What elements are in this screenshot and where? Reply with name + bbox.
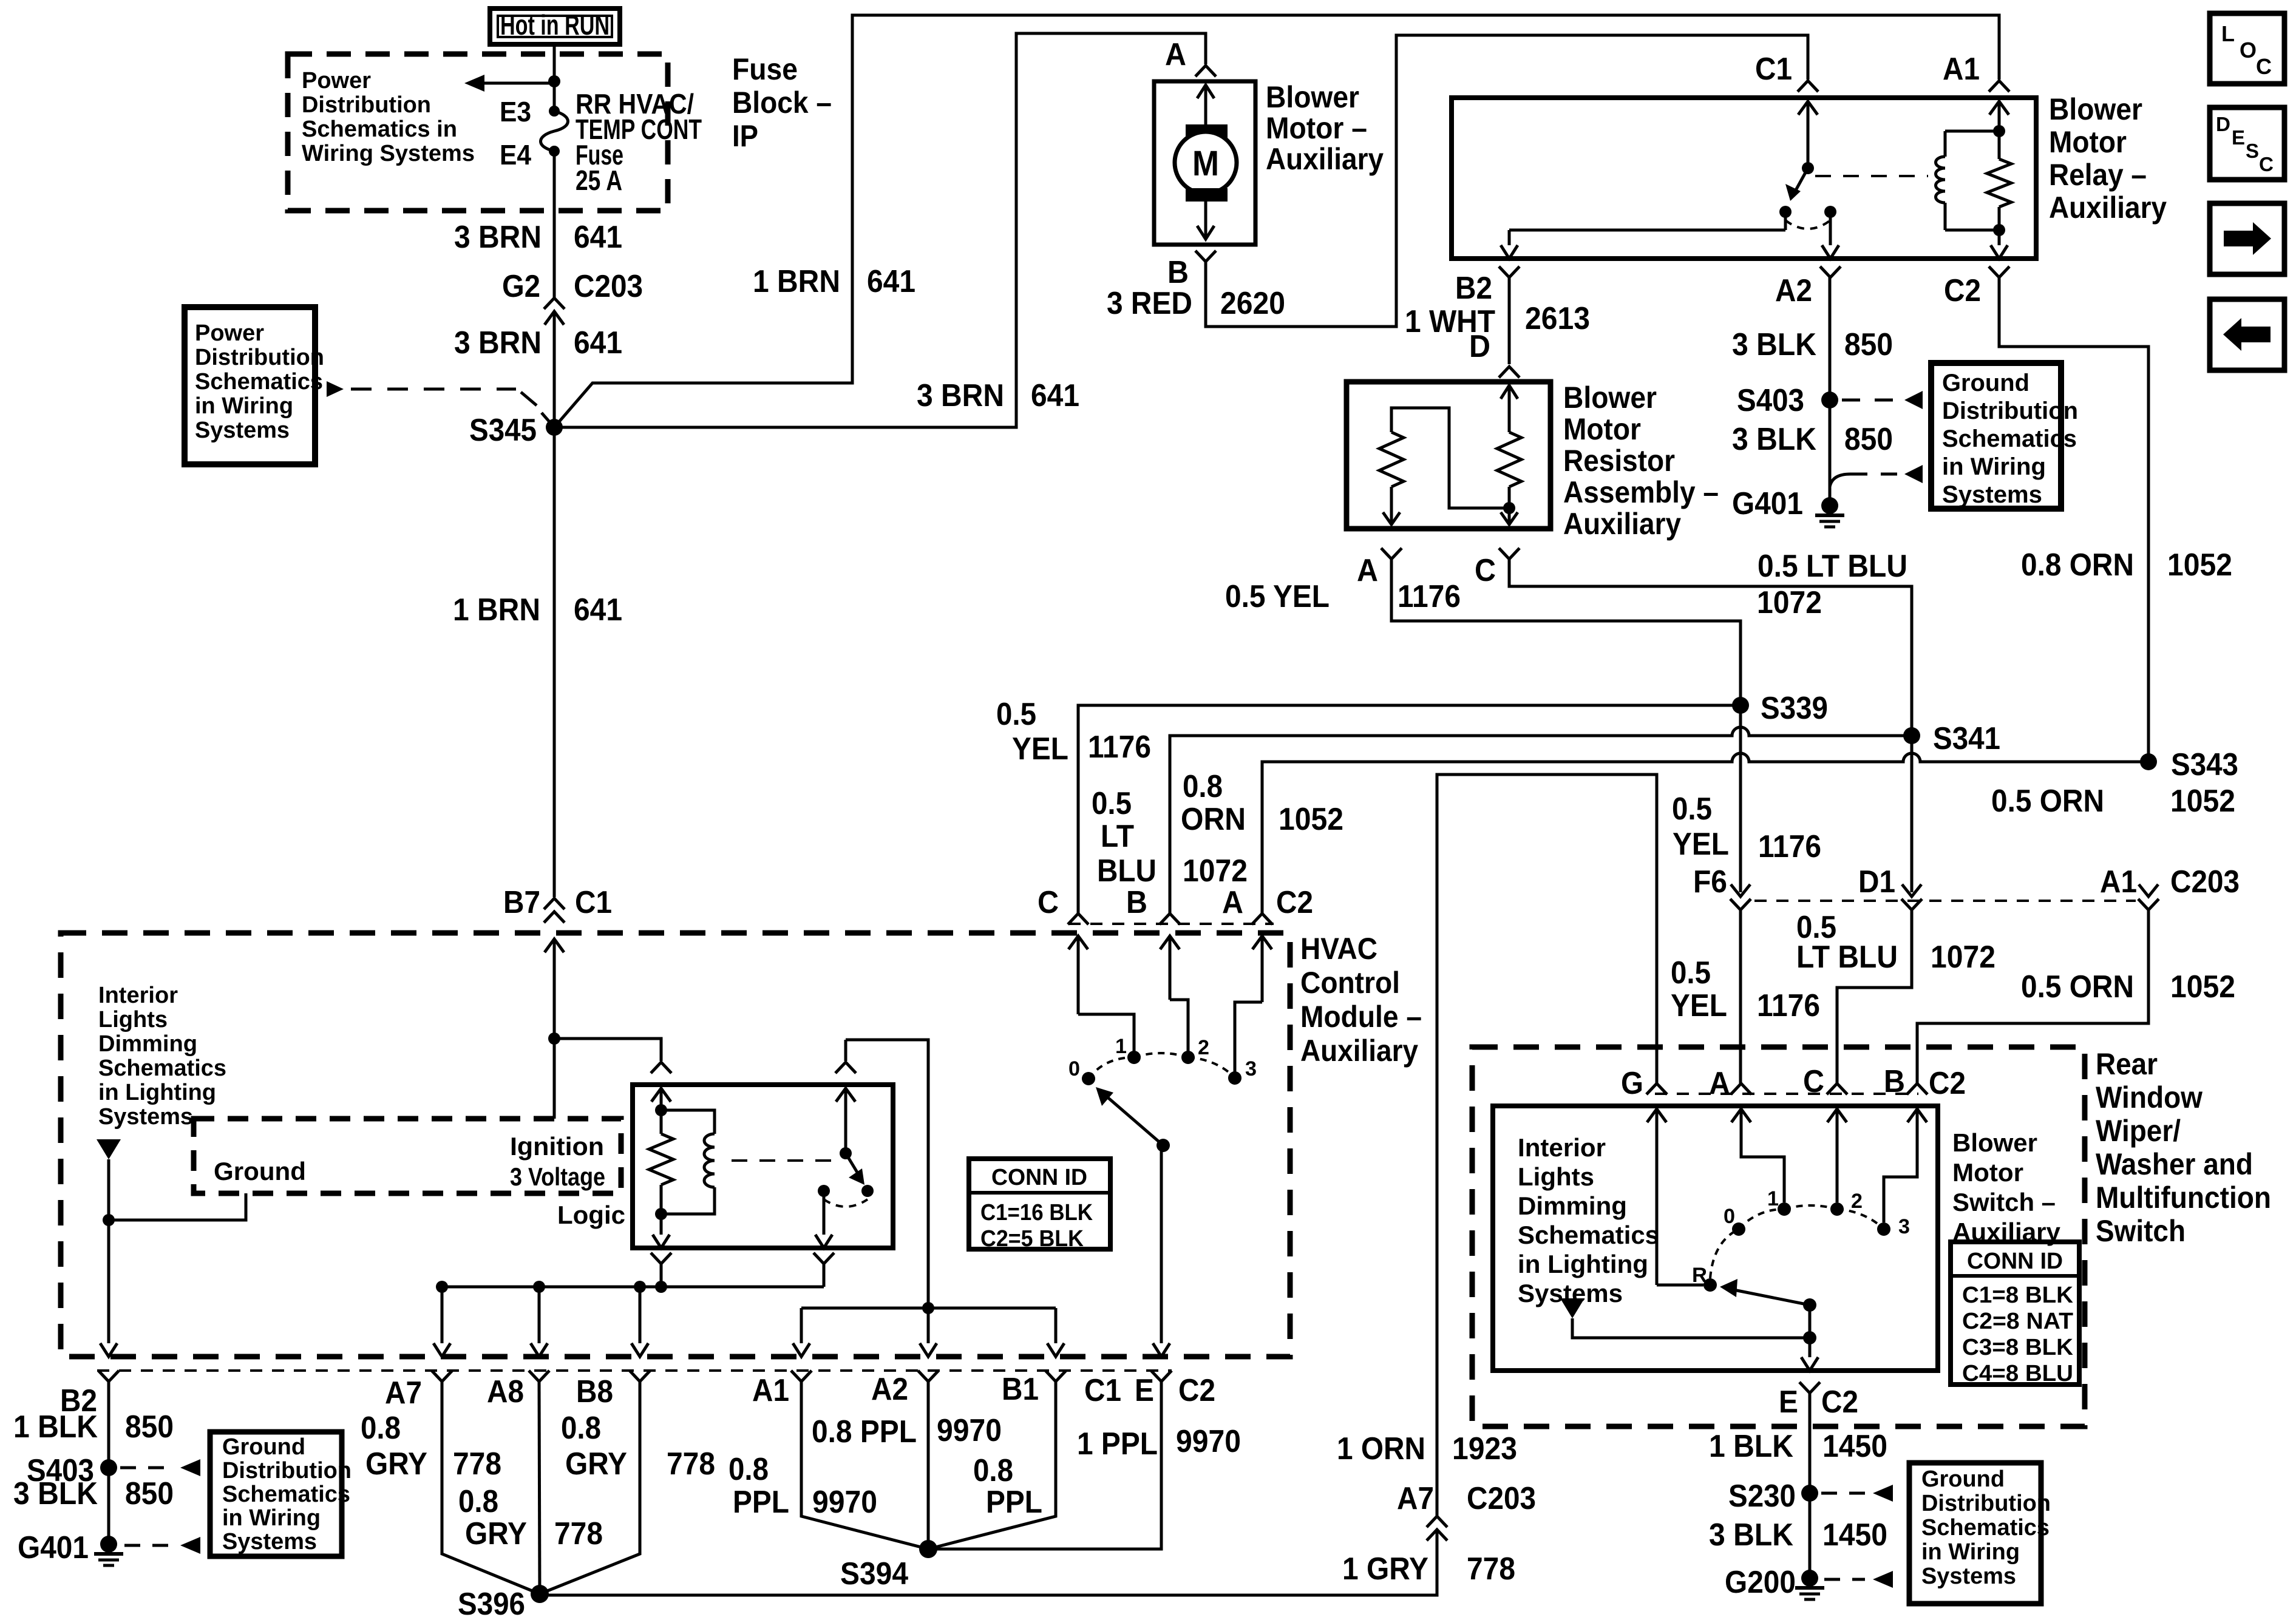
svg-text:C2=5 BLK: C2=5 BLK <box>980 1226 1084 1252</box>
wire label 3 BLK 850 (lower) <box>1732 422 1893 457</box>
wire: 0.5 LT BLU 1072 from HVAC B to S341 (hops S339 wire) <box>1170 727 1912 914</box>
svg-text:Distribution: Distribution <box>195 345 324 370</box>
svg-text:O: O <box>2240 38 2257 63</box>
pin A of rear switch <box>1709 1066 1751 1101</box>
svg-text:1923: 1923 <box>1452 1431 1517 1466</box>
svg-text:0.5: 0.5 <box>1672 792 1712 827</box>
relay coil and resistor <box>1936 101 2012 259</box>
wire label 1 BRN 641 <box>453 592 622 628</box>
svg-text:C: C <box>2259 153 2274 175</box>
connector C2 label and thin dashed line <box>1068 885 1313 924</box>
svg-text:9970: 9970 <box>812 1485 877 1520</box>
svg-text:HVAC: HVAC <box>1300 932 1377 966</box>
svg-text:3 BLK: 3 BLK <box>1732 422 1816 457</box>
svg-text:Auxiliary: Auxiliary <box>1300 1034 1418 1068</box>
label Ground <box>214 1157 306 1185</box>
svg-text:1 PPL: 1 PPL <box>1077 1426 1158 1462</box>
relay contact (to A2) <box>1824 206 1836 218</box>
wire: ground box to ground rail <box>109 1193 246 1220</box>
svg-text:3: 3 <box>1245 1057 1257 1080</box>
svg-text:Washer and: Washer and <box>2096 1147 2253 1181</box>
HVAC bottom connector thin dashed line <box>97 1369 1172 1372</box>
svg-text:Multifunction: Multifunction <box>2096 1181 2271 1215</box>
in-line connector C203 thin dashed line <box>1754 900 2136 902</box>
svg-text:850: 850 <box>1844 327 1893 362</box>
nav icon arrow left <box>2210 299 2284 370</box>
blower motor M1 box <box>1154 81 1255 245</box>
resistor assembly internals <box>1379 385 1521 524</box>
component label: Blower Motor Resistor Assembly - Auxiliary <box>1563 381 1719 541</box>
label box: Hot in RUN <box>490 8 620 44</box>
pin B of rear switch <box>1884 1064 1927 1099</box>
pin D of resistor assembly <box>1499 367 1520 378</box>
wire: 0.5 YEL 1176 from resistor A to S339 <box>1391 559 1741 697</box>
svg-text:3 Voltage: 3 Voltage <box>510 1162 605 1191</box>
motor M symbol <box>1175 85 1237 239</box>
svg-text:1 BLK: 1 BLK <box>13 1409 98 1445</box>
svg-text:0.8: 0.8 <box>561 1411 601 1446</box>
svg-text:1072: 1072 <box>1757 585 1822 620</box>
svg-text:1: 1 <box>1115 1035 1127 1058</box>
wire label 3 BRN 641 (below C203) <box>454 325 622 361</box>
wire labels 0.8 PPL 9970 (A2) <box>812 1413 1002 1449</box>
svg-text:Motor –: Motor – <box>1266 111 1367 145</box>
reference box: Power Distribution Schematics in Wiring Systems <box>185 307 324 464</box>
rear switch connector thin dashed line <box>1655 1093 1918 1095</box>
HVAC rotary blower switch <box>1078 1000 1262 1085</box>
pin A of blower motor <box>1165 37 1216 76</box>
svg-text:641: 641 <box>867 264 915 299</box>
wire label 0.5 YEL 1176 (below C203) <box>1671 955 1820 1023</box>
wire: 0.8 ORN 1052 from HVAC A to S343 (hops S339,S341 wires) <box>1262 753 2148 914</box>
svg-text:Systems: Systems <box>98 1104 193 1130</box>
dashed reference from G401 left <box>124 1537 200 1554</box>
svg-text:Wiper/: Wiper/ <box>2096 1114 2181 1148</box>
svg-text:Auxiliary: Auxiliary <box>2049 191 2167 225</box>
svg-text:0.5: 0.5 <box>1092 786 1132 821</box>
wire: rotary common to pin E/C2 <box>1153 1145 1170 1357</box>
rear rotary contacts <box>1703 1202 1890 1292</box>
svg-text:S403: S403 <box>1737 383 1804 418</box>
wire: 1 BRN 641 rail from S345 up to blower motor relay A1 <box>554 15 1999 427</box>
svg-text:3: 3 <box>1898 1215 1910 1238</box>
svg-text:Logic: Logic <box>557 1201 625 1229</box>
wire label 1 BRN 641 <box>753 264 915 299</box>
rotary position labels 0 1 2 3 (HVAC) <box>1068 1035 1257 1080</box>
svg-text:778: 778 <box>554 1516 603 1551</box>
svg-text:E3: E3 <box>500 96 531 127</box>
svg-text:641: 641 <box>574 592 622 628</box>
wire labels 0.8 GRY 778 (A7) <box>361 1411 501 1482</box>
wire: B+ to HVAC internal relay <box>554 1039 661 1061</box>
connector C203 pin G2 <box>502 269 643 304</box>
svg-text:1176: 1176 <box>1757 988 1820 1023</box>
wire labels 0.8 PPL (B1) <box>973 1453 1042 1520</box>
svg-text:in Wiring: in Wiring <box>222 1505 321 1531</box>
svg-text:C1=16 BLK: C1=16 BLK <box>980 1200 1093 1225</box>
relay K1 box: Blower Motor Relay - Auxiliary <box>1452 98 2036 259</box>
wire: 1 BLK 850 from HVAC B2 to S403 <box>107 1381 110 1544</box>
svg-text:IP: IP <box>732 119 758 153</box>
relay contact (to B2) <box>1779 206 1792 230</box>
svg-text:S339: S339 <box>1761 691 1828 726</box>
svg-text:C: C <box>1475 553 1496 588</box>
dashed actuator link (HVAC relay) <box>732 1159 838 1162</box>
wire label 3 BLK 1450 <box>1709 1517 1887 1553</box>
svg-text:0.8: 0.8 <box>973 1453 1013 1488</box>
svg-text:in Lighting: in Lighting <box>1518 1250 1648 1278</box>
svg-text:B7: B7 <box>503 885 540 920</box>
svg-text:Block –: Block – <box>732 86 832 120</box>
label Ignition 3 Voltage <box>510 1132 605 1191</box>
pin A7 of HVAC <box>385 1371 452 1411</box>
svg-text:PPL: PPL <box>733 1485 789 1520</box>
svg-text:1450: 1450 <box>1822 1429 1887 1464</box>
CONN ID table (HVAC) <box>969 1159 1110 1252</box>
wire labels 0.8 GRY 778 (A8) <box>458 1484 603 1551</box>
svg-text:CONN ID: CONN ID <box>991 1165 1087 1190</box>
svg-text:C1=8 BLK: C1=8 BLK <box>1962 1283 2074 1308</box>
svg-text:Systems: Systems <box>1942 481 2042 508</box>
svg-text:641: 641 <box>574 325 622 361</box>
wire label 3 BRN 641 <box>454 220 622 255</box>
svg-text:Fuse: Fuse <box>732 52 798 86</box>
svg-text:Ground: Ground <box>1921 1466 2005 1492</box>
pin E/C2 of rear switch <box>1779 1382 1858 1420</box>
svg-text:Motor: Motor <box>2049 125 2127 159</box>
ground G200 <box>1725 1565 1824 1600</box>
pin C2 of relay <box>1944 266 2009 308</box>
rotary wiper arm (rear) <box>1720 1279 1816 1312</box>
svg-text:2: 2 <box>1851 1190 1863 1213</box>
svg-text:Systems: Systems <box>1921 1564 2016 1589</box>
wire: output bracket to A1/A2/B1 <box>793 1302 1064 1357</box>
svg-text:9970: 9970 <box>1176 1424 1241 1459</box>
svg-text:850: 850 <box>1844 422 1893 457</box>
svg-text:C203: C203 <box>2170 864 2240 900</box>
wire: 0.8 GRY 778 from B8 <box>540 1381 640 1594</box>
svg-text:0.8 PPL: 0.8 PPL <box>812 1414 917 1449</box>
svg-text:Dimming: Dimming <box>98 1031 197 1057</box>
svg-text:3 BRN: 3 BRN <box>454 220 542 255</box>
svg-text:E: E <box>1779 1385 1798 1420</box>
svg-text:Ground: Ground <box>1942 370 2029 396</box>
svg-text:C203: C203 <box>574 269 643 304</box>
component label: Rear Window Wiper/Washer and Multifunction Switch <box>2096 1047 2271 1248</box>
svg-text:Interior: Interior <box>1518 1133 1606 1162</box>
wire label 0.5 ORN 1052 (below C203) <box>2021 969 2235 1005</box>
rear window multifunction switch dashed box <box>1472 1047 2085 1426</box>
svg-text:Auxiliary: Auxiliary <box>1266 142 1384 176</box>
wire into HVAC from B7 <box>545 939 564 1119</box>
wire: 3 BRN 641 to S345 <box>553 328 556 427</box>
svg-text:778: 778 <box>1467 1551 1515 1587</box>
pin C1 of relay <box>1755 52 1818 92</box>
svg-text:Module –: Module – <box>1300 1000 1422 1034</box>
wire: common to pin E <box>1801 1338 1818 1371</box>
ground triangle and common rail (rear switch) <box>1560 1298 1816 1344</box>
svg-text:Systems: Systems <box>195 418 290 443</box>
connector C203 pin A1 <box>2100 864 2240 910</box>
wire: A8 drop <box>531 1287 548 1357</box>
svg-text:Switch –: Switch – <box>1952 1188 2056 1216</box>
wire label 1 WHT 2613 <box>1405 301 1590 364</box>
wire: relay to pin B2 <box>1501 230 1785 259</box>
svg-text:B8: B8 <box>576 1374 613 1409</box>
wire label 0.5 LT BLU 1072 <box>1757 549 1907 620</box>
wire labels 0.8 GRY 778 (B8) <box>561 1411 715 1482</box>
wire label 1 BLK 850 <box>13 1409 174 1445</box>
pin A2 of HVAC <box>871 1371 939 1407</box>
svg-text:Blower: Blower <box>2049 92 2142 126</box>
svg-text:YEL: YEL <box>1671 988 1727 1023</box>
svg-text:B1: B1 <box>1002 1372 1039 1407</box>
wire: 0.5 ORN 1052 from A1 to rear window switch B <box>1917 910 2148 1085</box>
wire label 1 PPL 9970 <box>1077 1424 1241 1462</box>
svg-text:Window: Window <box>2096 1080 2203 1114</box>
HVAC relay switch <box>815 1040 874 1248</box>
splice S341 <box>1903 721 2000 892</box>
wire: B8 drop <box>631 1287 648 1357</box>
connector pin A of HVAC C2 <box>1222 885 1272 924</box>
svg-text:0.5 YEL: 0.5 YEL <box>1225 579 1330 614</box>
ground G401 (left) <box>18 1530 123 1565</box>
svg-text:Hot in RUN: Hot in RUN <box>500 9 610 41</box>
svg-text:A7: A7 <box>1397 1481 1434 1516</box>
wire label 3 BLK 850 <box>1732 327 1893 362</box>
svg-text:G2: G2 <box>502 269 540 304</box>
pin A8 of HVAC <box>487 1371 549 1409</box>
pin E4 <box>500 139 531 171</box>
svg-text:C2: C2 <box>1929 1066 1966 1101</box>
connector C203 pin D1 <box>1858 864 1922 910</box>
svg-text:GRY: GRY <box>465 1516 527 1551</box>
svg-text:C: C <box>1803 1064 1824 1099</box>
splice S339 <box>1732 691 1828 892</box>
svg-text:B2: B2 <box>1455 271 1492 306</box>
svg-text:Schematics: Schematics <box>98 1056 226 1081</box>
wire label 1 ORN 1923 <box>1337 1431 1517 1466</box>
svg-text:641: 641 <box>1031 378 1079 413</box>
splice S394 <box>840 1540 937 1592</box>
svg-text:0.5 LT BLU: 0.5 LT BLU <box>1758 549 1907 584</box>
HVAC internal relay box <box>633 1062 893 1248</box>
svg-text:0.5 ORN: 0.5 ORN <box>2021 969 2134 1005</box>
dashed reference from S403 left <box>120 1459 200 1476</box>
svg-text:641: 641 <box>574 220 622 255</box>
pin B2 of relay <box>1455 266 1520 306</box>
svg-text:A: A <box>1357 553 1378 588</box>
svg-text:in Wiring: in Wiring <box>195 393 293 419</box>
wire: 0.5 YEL 1176 from F6 to rear window switch A <box>1739 910 1742 1085</box>
svg-text:2: 2 <box>1198 1036 1209 1059</box>
svg-text:3 BLK: 3 BLK <box>1709 1517 1793 1553</box>
svg-text:A: A <box>1709 1066 1730 1101</box>
node: junction at fuse feed <box>548 75 560 87</box>
wire label 0.5 ORN 1052 (at S343) <box>1991 784 2235 819</box>
nav icon arrow right <box>2210 203 2284 274</box>
dashed reference arrow to S345 <box>327 381 550 422</box>
svg-text:PPL: PPL <box>986 1485 1042 1520</box>
svg-text:Blower: Blower <box>1563 381 1657 415</box>
svg-text:L: L <box>2221 21 2235 46</box>
dashed arc between relay contacts <box>1785 220 1830 229</box>
splice S230 <box>1728 1479 1818 1514</box>
svg-text:1052: 1052 <box>2167 547 2232 583</box>
connector C203 pin A7 (bottom) <box>1397 1481 1536 1516</box>
reference box: Ground Distribution Schematics in Wiring Systems (bottom right) <box>1909 1463 2051 1604</box>
svg-text:M: M <box>1192 144 1219 183</box>
reference box: Ground Distribution Schematics in Wiring Systems (right) <box>1931 363 2078 509</box>
nav icon LOC <box>2210 13 2284 84</box>
svg-text:1052: 1052 <box>2170 969 2235 1005</box>
svg-text:Relay –: Relay – <box>2049 158 2147 192</box>
svg-text:1052: 1052 <box>1279 802 1343 837</box>
svg-text:1176: 1176 <box>1758 829 1821 864</box>
svg-text:C2: C2 <box>1276 885 1313 920</box>
svg-text:A1: A1 <box>752 1373 789 1408</box>
wire: 0.8 ORN 1052 from relay C2 down right side <box>1999 277 2148 754</box>
pin B1 of HVAC <box>1002 1371 1066 1407</box>
pin B2 of HVAC <box>60 1338 119 1419</box>
svg-text:0.8: 0.8 <box>361 1411 401 1446</box>
component label: Blower Motor Relay - Auxiliary <box>2049 92 2167 225</box>
svg-text:Schematics: Schematics <box>1518 1221 1659 1249</box>
svg-text:Distribution: Distribution <box>302 92 431 118</box>
component label: Blower Motor Switch - Auxiliary <box>1952 1128 2061 1246</box>
svg-text:S396: S396 <box>458 1587 525 1617</box>
pin C of resistor assembly <box>1475 548 1520 588</box>
dashed reference from G401 <box>1830 465 1923 487</box>
ground reference triangle (HVAC) <box>97 1139 121 1338</box>
svg-text:G401: G401 <box>1732 486 1803 521</box>
svg-text:LT: LT <box>1101 819 1134 854</box>
svg-text:C3=8 BLK: C3=8 BLK <box>1962 1335 2074 1360</box>
svg-text:Distribution: Distribution <box>1921 1491 2051 1516</box>
wire: 3 BRN 641 rail from S345 to blower motor A <box>554 33 1206 427</box>
svg-text:3 BLK: 3 BLK <box>1732 327 1816 362</box>
svg-text:C4=8 BLU: C4=8 BLU <box>1962 1361 2073 1386</box>
svg-text:A: A <box>1165 37 1186 72</box>
splice S345 <box>469 413 563 448</box>
wire label 3 BRN 641 (motor feed) <box>917 378 1079 413</box>
wire: relay contact to pin A2 <box>1822 212 1839 259</box>
fuse value label <box>576 88 702 196</box>
svg-text:0.8: 0.8 <box>729 1452 769 1487</box>
svg-text:R: R <box>1692 1264 1707 1287</box>
wire: 0.8 PPL 9970 from B1 <box>928 1381 1056 1549</box>
svg-text:1: 1 <box>1767 1187 1779 1210</box>
wire: 3 RED 2620 from motor B to relay C1 <box>1206 35 1808 327</box>
svg-text:C2=8 NAT: C2=8 NAT <box>1962 1309 2073 1334</box>
wire: 0.8 GRY 778 from A7 <box>442 1381 540 1594</box>
pin C of rear switch <box>1803 1064 1847 1099</box>
blower motor switch S1 box <box>1493 1106 1938 1371</box>
svg-text:in Lighting: in Lighting <box>98 1080 216 1105</box>
svg-text:BLU: BLU <box>1097 853 1156 889</box>
note: Power Distribution Schematics in Wiring Systems (fuse block) <box>302 68 475 166</box>
wire label 0.5 YEL 1176 <box>1225 579 1461 614</box>
svg-text:850: 850 <box>125 1409 174 1445</box>
svg-text:Distribution: Distribution <box>222 1458 352 1483</box>
wire label 3 BLK 850 (left) <box>13 1476 174 1511</box>
fuse block dashed box (Fuse Block - IP) <box>288 54 668 211</box>
rotary position labels R 0 1 2 3 (rear) <box>1692 1187 1910 1287</box>
rear rotary switch wires <box>1657 1129 1917 1285</box>
svg-text:Schematics in: Schematics in <box>302 117 457 142</box>
svg-text:S: S <box>2246 140 2259 162</box>
pin A of resistor assembly <box>1357 548 1402 588</box>
wire: 0.5 YEL 1176 from HVAC C to S339 <box>1078 705 1741 914</box>
svg-text:0.5 ORN: 0.5 ORN <box>1991 784 2104 819</box>
splice S403 (right) <box>1737 383 1838 418</box>
svg-text:0.8 ORN: 0.8 ORN <box>2021 547 2134 583</box>
svg-text:ORN: ORN <box>1181 802 1246 837</box>
svg-text:D1: D1 <box>1858 864 1895 900</box>
svg-text:Systems: Systems <box>222 1529 317 1554</box>
svg-text:1450: 1450 <box>1822 1517 1887 1553</box>
svg-text:A: A <box>1222 885 1243 920</box>
note: Interior Lights Dimming Schematics in Lighting Systems (rear switch) <box>1518 1133 1659 1307</box>
wire labels 0.8 PPL (A1) <box>729 1452 877 1520</box>
svg-text:S230: S230 <box>1728 1479 1796 1514</box>
rotary dashed arc (HVAC) <box>1089 1053 1235 1079</box>
svg-text:1072: 1072 <box>1183 853 1248 889</box>
relay switch common from C1 <box>1798 101 1818 174</box>
svg-text:0.8: 0.8 <box>1183 769 1223 804</box>
wire: 0.8 GRY 778 from A8 <box>539 1381 540 1594</box>
svg-text:LT BLU: LT BLU <box>1796 940 1898 975</box>
connector pin C of HVAC C2 <box>1038 885 1089 924</box>
wire: 1 WHT 2613 from relay B2 to resistor D <box>1508 277 1511 364</box>
svg-text:0.5: 0.5 <box>996 697 1036 732</box>
CONN ID table (rear switch) <box>1951 1242 2079 1386</box>
svg-text:Lights: Lights <box>1518 1162 1594 1191</box>
pin arrows into switch box <box>1647 1109 1927 1136</box>
svg-text:Interior: Interior <box>98 983 178 1008</box>
svg-text:1 GRY: 1 GRY <box>1342 1551 1428 1587</box>
pin G of rear switch <box>1621 1066 1667 1101</box>
wire label 3 RED 2620 <box>1107 286 1285 321</box>
svg-text:GRY: GRY <box>365 1446 427 1482</box>
svg-text:YEL: YEL <box>1012 731 1068 767</box>
svg-text:Schematics: Schematics <box>1942 425 2077 452</box>
wire: 3 BLK 850 from relay A2 to S403 <box>1829 277 1832 400</box>
svg-text:CONN ID: CONN ID <box>1967 1249 2063 1274</box>
dashed reference from S403 to ground distribution note <box>1842 391 1923 409</box>
HVAC control module dashed box <box>61 933 1290 1357</box>
svg-text:3 BRN: 3 BRN <box>917 378 1004 413</box>
svg-text:Ground: Ground <box>222 1434 305 1460</box>
wire: 0.8 PPL 9970 from A1 <box>801 1381 928 1549</box>
svg-text:C2: C2 <box>1821 1385 1858 1420</box>
note: Interior Lights Dimming Schematics in Lighting Systems (HVAC) <box>98 983 226 1130</box>
svg-text:9970: 9970 <box>937 1413 1002 1448</box>
rotary wiper arm (HVAC) <box>1096 1087 1170 1152</box>
svg-text:A1: A1 <box>1943 52 1980 87</box>
svg-text:B: B <box>1884 1064 1905 1099</box>
wire: 1 BLK 1450 from E to S230 <box>1809 1393 1812 1578</box>
svg-text:0.8: 0.8 <box>458 1484 498 1519</box>
svg-text:1072: 1072 <box>1931 940 1995 975</box>
wire: 778/1923 run from S396 to rear window switch G <box>540 775 1657 1595</box>
svg-text:C2: C2 <box>1178 1373 1215 1408</box>
wire labels at HVAC C2 pins: 0.5 YEL 1176 <box>996 697 1151 767</box>
svg-text:1 BRN: 1 BRN <box>453 592 540 628</box>
dashed reference from G200 <box>1824 1571 1893 1588</box>
svg-text:0: 0 <box>1068 1057 1080 1080</box>
wire: 3 BLK 850 from S403 to G401 <box>1829 400 1832 506</box>
